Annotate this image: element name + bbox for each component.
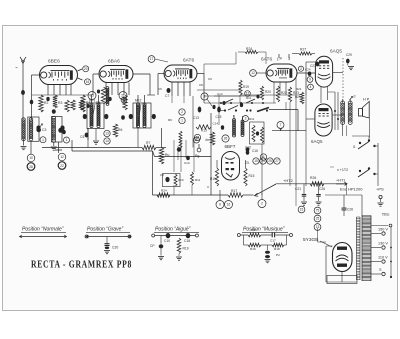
svg-text:CP: CP <box>150 244 155 248</box>
svg-text:Position “Aiguë”: Position “Aiguë” <box>155 227 191 233</box>
svg-text:25: 25 <box>90 94 94 98</box>
svg-text:15: 15 <box>300 208 304 212</box>
svg-text:22: 22 <box>60 164 64 168</box>
svg-text:R19: R19 <box>243 85 249 89</box>
svg-text:9: 9 <box>309 78 311 82</box>
svg-text:C9: C9 <box>208 77 212 81</box>
svg-text:750Ω: 750Ω <box>382 213 391 217</box>
svg-text:1: 1 <box>181 119 183 123</box>
svg-text:C28: C28 <box>347 208 353 212</box>
svg-text:75: 75 <box>316 209 320 213</box>
svg-text:R20: R20 <box>265 90 271 94</box>
svg-text:6: 6 <box>219 203 221 207</box>
svg-text:C13: C13 <box>193 116 199 120</box>
svg-text:R16: R16 <box>210 177 216 181</box>
svg-text:20: 20 <box>195 138 199 142</box>
svg-text:P2: P2 <box>276 253 280 257</box>
svg-text:C8: C8 <box>160 173 164 177</box>
svg-text:110 V: 110 V <box>378 255 388 259</box>
svg-text:5Y3GB: 5Y3GB <box>303 237 318 243</box>
svg-text:C26: C26 <box>319 187 325 191</box>
svg-text:R7: R7 <box>146 141 150 145</box>
svg-text:13: 13 <box>105 132 109 136</box>
svg-text:Position “Musique”: Position “Musique” <box>243 227 285 233</box>
svg-text:R17: R17 <box>231 189 237 193</box>
svg-text:6BE6: 6BE6 <box>48 59 60 65</box>
svg-text:RECTA - GRAMREX PP8: RECTA - GRAMREX PP8 <box>31 259 132 271</box>
svg-text:R10: R10 <box>178 178 184 182</box>
svg-text:+PS: +PS <box>376 187 384 192</box>
svg-text:2: 2 <box>181 110 183 114</box>
svg-text:C16: C16 <box>252 149 258 153</box>
svg-text:1: 1 <box>42 138 44 142</box>
svg-text:R15: R15 <box>249 174 255 178</box>
svg-text:25: 25 <box>316 217 320 221</box>
svg-text:17: 17 <box>150 57 154 61</box>
svg-text:23.: 23. <box>245 161 250 165</box>
svg-text:7: 7 <box>280 123 282 127</box>
svg-text:15: 15 <box>254 159 258 163</box>
svg-text:25: 25 <box>268 159 272 163</box>
svg-text:R21: R21 <box>296 87 302 91</box>
svg-text:MF2: MF2 <box>135 99 142 103</box>
svg-text:C20: C20 <box>112 246 118 250</box>
svg-text:C8: C8 <box>199 83 203 87</box>
svg-text:3: 3 <box>245 117 247 121</box>
svg-text:C5: C5 <box>80 135 84 139</box>
svg-text:16: 16 <box>227 203 231 207</box>
svg-text:C10: C10 <box>164 239 170 243</box>
svg-text:R6: R6 <box>118 128 122 132</box>
svg-text:R24: R24 <box>161 188 167 192</box>
svg-text:10: 10 <box>122 98 126 102</box>
svg-text:( P: ( P <box>277 56 282 61</box>
svg-text:Enc HP1200: Enc HP1200 <box>340 187 363 192</box>
svg-text:27: 27 <box>275 159 279 163</box>
svg-text:C10: C10 <box>184 161 190 165</box>
svg-text:C14: C14 <box>213 122 219 126</box>
svg-text:130 V: 130 V <box>378 241 388 245</box>
svg-text:C6: C6 <box>158 87 162 91</box>
svg-text:6AT6: 6AT6 <box>183 58 194 64</box>
svg-text:6AQ5: 6AQ5 <box>311 139 323 144</box>
svg-text:R16: R16 <box>250 247 256 251</box>
svg-text:R13: R13 <box>201 129 207 133</box>
svg-text:R24: R24 <box>246 47 252 51</box>
svg-text:4m: 4m <box>205 138 210 142</box>
svg-text:R22: R22 <box>281 91 287 95</box>
svg-text:I1: I1 <box>353 145 356 149</box>
svg-text:16: 16 <box>86 80 90 84</box>
svg-text:C21: C21 <box>295 187 301 191</box>
svg-text:C7: C7 <box>165 94 169 98</box>
svg-text:R27: R27 <box>300 48 306 52</box>
svg-text:H P: H P <box>363 98 370 102</box>
svg-text:2: 2 <box>261 202 263 206</box>
svg-text:C17: C17 <box>270 239 276 243</box>
svg-text:R2: R2 <box>44 101 48 105</box>
svg-text:+HT2: +HT2 <box>283 178 294 183</box>
svg-text:R11: R11 <box>195 178 201 182</box>
svg-text:+HT1: +HT1 <box>336 179 345 183</box>
svg-text:C15: C15 <box>216 115 222 119</box>
svg-text:C29: C29 <box>346 53 352 57</box>
svg-text:x +1T2: x +1T2 <box>337 168 348 172</box>
svg-text:Pg: Pg <box>195 154 199 158</box>
svg-text:12: 12 <box>60 155 64 159</box>
svg-text:6AQ5: 6AQ5 <box>330 49 342 54</box>
svg-text:d: d <box>354 95 356 99</box>
svg-text:20: 20 <box>84 67 88 71</box>
svg-text:10: 10 <box>29 156 33 160</box>
svg-text:28: 28 <box>29 165 33 169</box>
svg-text:2: 2 <box>300 67 302 71</box>
svg-text:R17: R17 <box>251 228 257 232</box>
svg-text:6AT6: 6AT6 <box>261 57 272 63</box>
svg-text:C14: C14 <box>217 92 223 96</box>
svg-text:1: 1 <box>66 138 68 142</box>
svg-text:Position “Grave”: Position “Grave” <box>87 227 123 233</box>
svg-text:R26: R26 <box>310 176 316 180</box>
svg-text:C18: C18 <box>184 239 190 243</box>
svg-text:4: 4 <box>310 85 312 89</box>
svg-text:R11: R11 <box>246 96 252 100</box>
svg-text:150 V: 150 V <box>378 227 388 231</box>
svg-text:Position “Normale”: Position “Normale” <box>22 227 64 233</box>
svg-text:R19: R19 <box>183 247 189 251</box>
svg-text:12: 12 <box>251 71 255 75</box>
svg-text:14: 14 <box>105 139 109 143</box>
svg-text:C3: C3 <box>42 128 46 132</box>
svg-text:MF1: MF1 <box>89 99 96 103</box>
svg-text:R9: R9 <box>168 118 172 122</box>
svg-text:6BF7: 6BF7 <box>225 144 236 149</box>
svg-text:R3: R3 <box>58 101 62 105</box>
svg-text:R18: R18 <box>274 247 280 251</box>
svg-text:R11: R11 <box>249 117 255 121</box>
svg-text:C10: C10 <box>245 146 251 150</box>
svg-text:26: 26 <box>224 137 228 141</box>
svg-text:6BA6: 6BA6 <box>108 59 120 65</box>
